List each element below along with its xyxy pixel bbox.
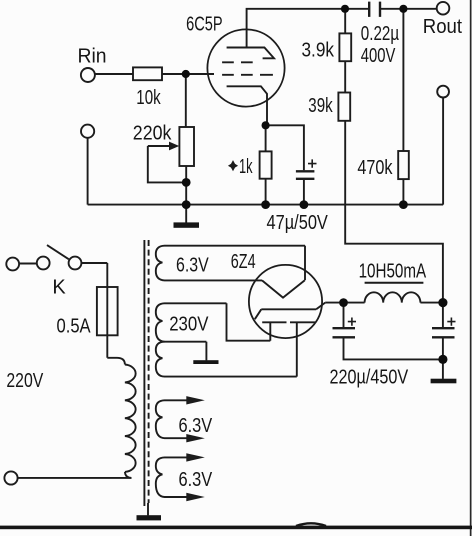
svg-text:39k: 39k [308,94,332,117]
svg-text:6.3V: 6.3V [179,413,213,436]
svg-text:230V: 230V [169,312,209,335]
svg-text:10H50mA: 10H50mA [359,259,427,282]
svg-text:470k: 470k [357,156,393,178]
svg-text:10k: 10k [136,86,160,109]
svg-text:220V: 220V [6,369,43,391]
svg-text:6C5P: 6C5P [186,12,223,35]
svg-text:K: K [52,276,66,298]
svg-text:3.9k: 3.9k [302,38,335,61]
svg-text:400V: 400V [361,44,396,67]
svg-text:1k: 1k [239,155,253,178]
svg-text:0.22µ: 0.22µ [361,22,399,45]
svg-text:6Z4: 6Z4 [231,250,256,273]
svg-text:Rout: Rout [423,17,463,39]
svg-text:220k: 220k [133,123,172,145]
svg-text:47µ/50V: 47µ/50V [267,210,329,233]
svg-text:0.5A: 0.5A [57,314,92,337]
svg-text:6.3V: 6.3V [176,254,209,276]
svg-text:6.3V: 6.3V [179,468,213,491]
svg-text:220µ/450V: 220µ/450V [330,366,409,388]
svg-text:Rin: Rin [78,45,107,67]
